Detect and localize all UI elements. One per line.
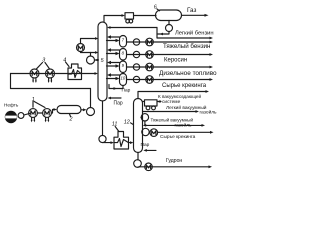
stripper 10 [120, 74, 127, 86]
circ reflux return lower [81, 52, 96, 54]
hot feed pump 3a [30, 69, 39, 78]
svg-text:11: 11 [112, 122, 118, 128]
svg-text:9: 9 [122, 63, 125, 68]
HVG product line [145, 124, 202, 126]
reflux pump [166, 25, 173, 32]
circ reflux return upper [81, 39, 96, 44]
svg-text:Керосин: Керосин [164, 58, 187, 64]
crude pump 1b [43, 109, 52, 118]
cracking feed cooler [146, 76, 154, 84]
HVG pump downcomer [144, 121, 146, 125]
drum downcomer [168, 21, 170, 25]
HVG pump [141, 114, 148, 121]
svg-text:Дизельное топливо: Дизельное топливо [159, 70, 217, 77]
circulating reflux draw line [95, 59, 99, 61]
air cooler fan 1 [126, 19, 130, 23]
tar line down [137, 153, 139, 161]
svg-text:газойль: газойль [175, 121, 193, 128]
tar pump [134, 160, 142, 168]
tar cooler [145, 163, 153, 171]
heavy gasoline pump [133, 39, 139, 45]
air cooler fan 2 [129, 19, 133, 23]
recycle riser from pump [90, 89, 92, 108]
air cooler (condenser) box [125, 13, 134, 19]
overhead vapor line from column 5 [104, 16, 122, 23]
svg-text:Тяжелый бензин: Тяжелый бензин [163, 43, 210, 50]
kerosene product line [127, 54, 210, 56]
diesel pump [133, 64, 139, 70]
svg-text:Нефть: Нефть [4, 103, 19, 108]
vacuum air condenser box [145, 100, 158, 106]
fan 2 [152, 106, 156, 110]
heavy vacuum gasoil draw [141, 116, 143, 118]
suction line [24, 113, 30, 115]
svg-text:Газ: Газ [187, 7, 196, 14]
mazut pump [99, 135, 106, 142]
stripper 8 vapor return [110, 49, 120, 51]
wire furnace 11 to vacuum column [129, 142, 131, 144]
furnace 4 [68, 64, 82, 80]
svg-text:7: 7 [122, 38, 125, 43]
light vacuum gasoil line [143, 111, 196, 113]
hot feed pump 3b [46, 69, 55, 78]
svg-text:Пар: Пар [114, 100, 123, 106]
heavy gasoline cooler [146, 38, 154, 46]
stripper 8 draw [107, 53, 117, 55]
svg-text:5: 5 [101, 58, 105, 64]
kerosene pump [133, 51, 139, 57]
vacuum cracking feed line [141, 131, 144, 133]
heavy gasoline product line [127, 41, 210, 43]
mazut downcomer [102, 101, 104, 135]
wire cooler to drum [134, 15, 157, 17]
stripper 9 vapor return [110, 62, 120, 64]
feed line to column [11, 73, 96, 75]
svg-text:Сырье крекинга: Сырье крекинга [162, 83, 207, 89]
column 12 steam line [147, 149, 157, 151]
stripper 7 [120, 36, 127, 48]
crude pump 1a [29, 109, 38, 118]
light gasoline product line [157, 37, 210, 39]
wire pump to furnace 11 [103, 142, 111, 144]
tar product line [138, 166, 209, 168]
reflux line to column top [110, 27, 157, 29]
stripper 7 draw [107, 40, 117, 42]
booster pump [87, 108, 95, 116]
stripper steam elbow [109, 85, 123, 89]
vacuum column 12 [134, 99, 143, 153]
circulating reflux pump [87, 56, 95, 64]
wire pumps to exchanger [37, 110, 53, 114]
reflux riser [156, 28, 158, 39]
stub at condenser outlet [157, 101, 161, 103]
svg-text:Гудрон: Гудрон [166, 158, 182, 164]
diesel cooler [146, 63, 154, 71]
stripper 10 vapor return [110, 74, 120, 76]
stripper 10 draw [107, 78, 117, 80]
small valve circle [18, 113, 24, 119]
reflux drum 6 [156, 10, 182, 21]
cracking feed pump [133, 76, 139, 82]
vacuum overhead line [138, 92, 206, 99]
svg-text:12: 12 [124, 119, 130, 125]
wire pump to junction [157, 32, 169, 35]
svg-text:Тяжелый вакуумный: Тяжелый вакуумный [151, 116, 194, 122]
cold feed recycle loop left vertical [10, 74, 12, 89]
wire column 12 to vacuum condenser [143, 101, 145, 103]
wire exchanger to booster pump [81, 109, 83, 111]
svg-text:2: 2 [69, 117, 73, 123]
svg-text:8: 8 [122, 51, 125, 56]
svg-text:Сырье крекинга: Сырье крекинга [160, 134, 196, 140]
stripper 7 vapor return [110, 36, 120, 38]
svg-text:Пар: Пар [141, 142, 150, 148]
svg-text:газойль: газойль [200, 108, 218, 115]
kerosene cooler [146, 51, 154, 59]
svg-text:10: 10 [121, 76, 126, 81]
circ reflux cooler [77, 44, 85, 52]
svg-text:Легкий бензин: Легкий бензин [175, 29, 214, 36]
recycle loop bottom line [11, 88, 91, 90]
stripper 9 draw [107, 65, 117, 67]
stripper 8 [120, 49, 127, 61]
cracking feed product line [127, 79, 210, 81]
furnace 11 [114, 132, 129, 150]
svg-text:К вакуумсоздающей: К вакуумсоздающей [158, 93, 201, 99]
vac cracking cooler [150, 129, 158, 137]
column 5 steam line [111, 97, 122, 99]
atmospheric column 5 [98, 22, 107, 101]
crude source symbol [5, 111, 17, 123]
pump riser [90, 53, 92, 57]
svg-text:Пар: Пар [122, 88, 131, 94]
heat exchanger 2 [57, 106, 81, 114]
fan 1 [146, 106, 150, 110]
svg-text:6: 6 [154, 5, 157, 11]
svg-text:системе: системе [162, 100, 181, 105]
diesel product line [127, 66, 210, 68]
HVG return arrow into column [145, 124, 146, 126]
gas product line [182, 14, 205, 16]
vac cracking pump [142, 128, 149, 135]
stripper 9 [120, 61, 127, 73]
